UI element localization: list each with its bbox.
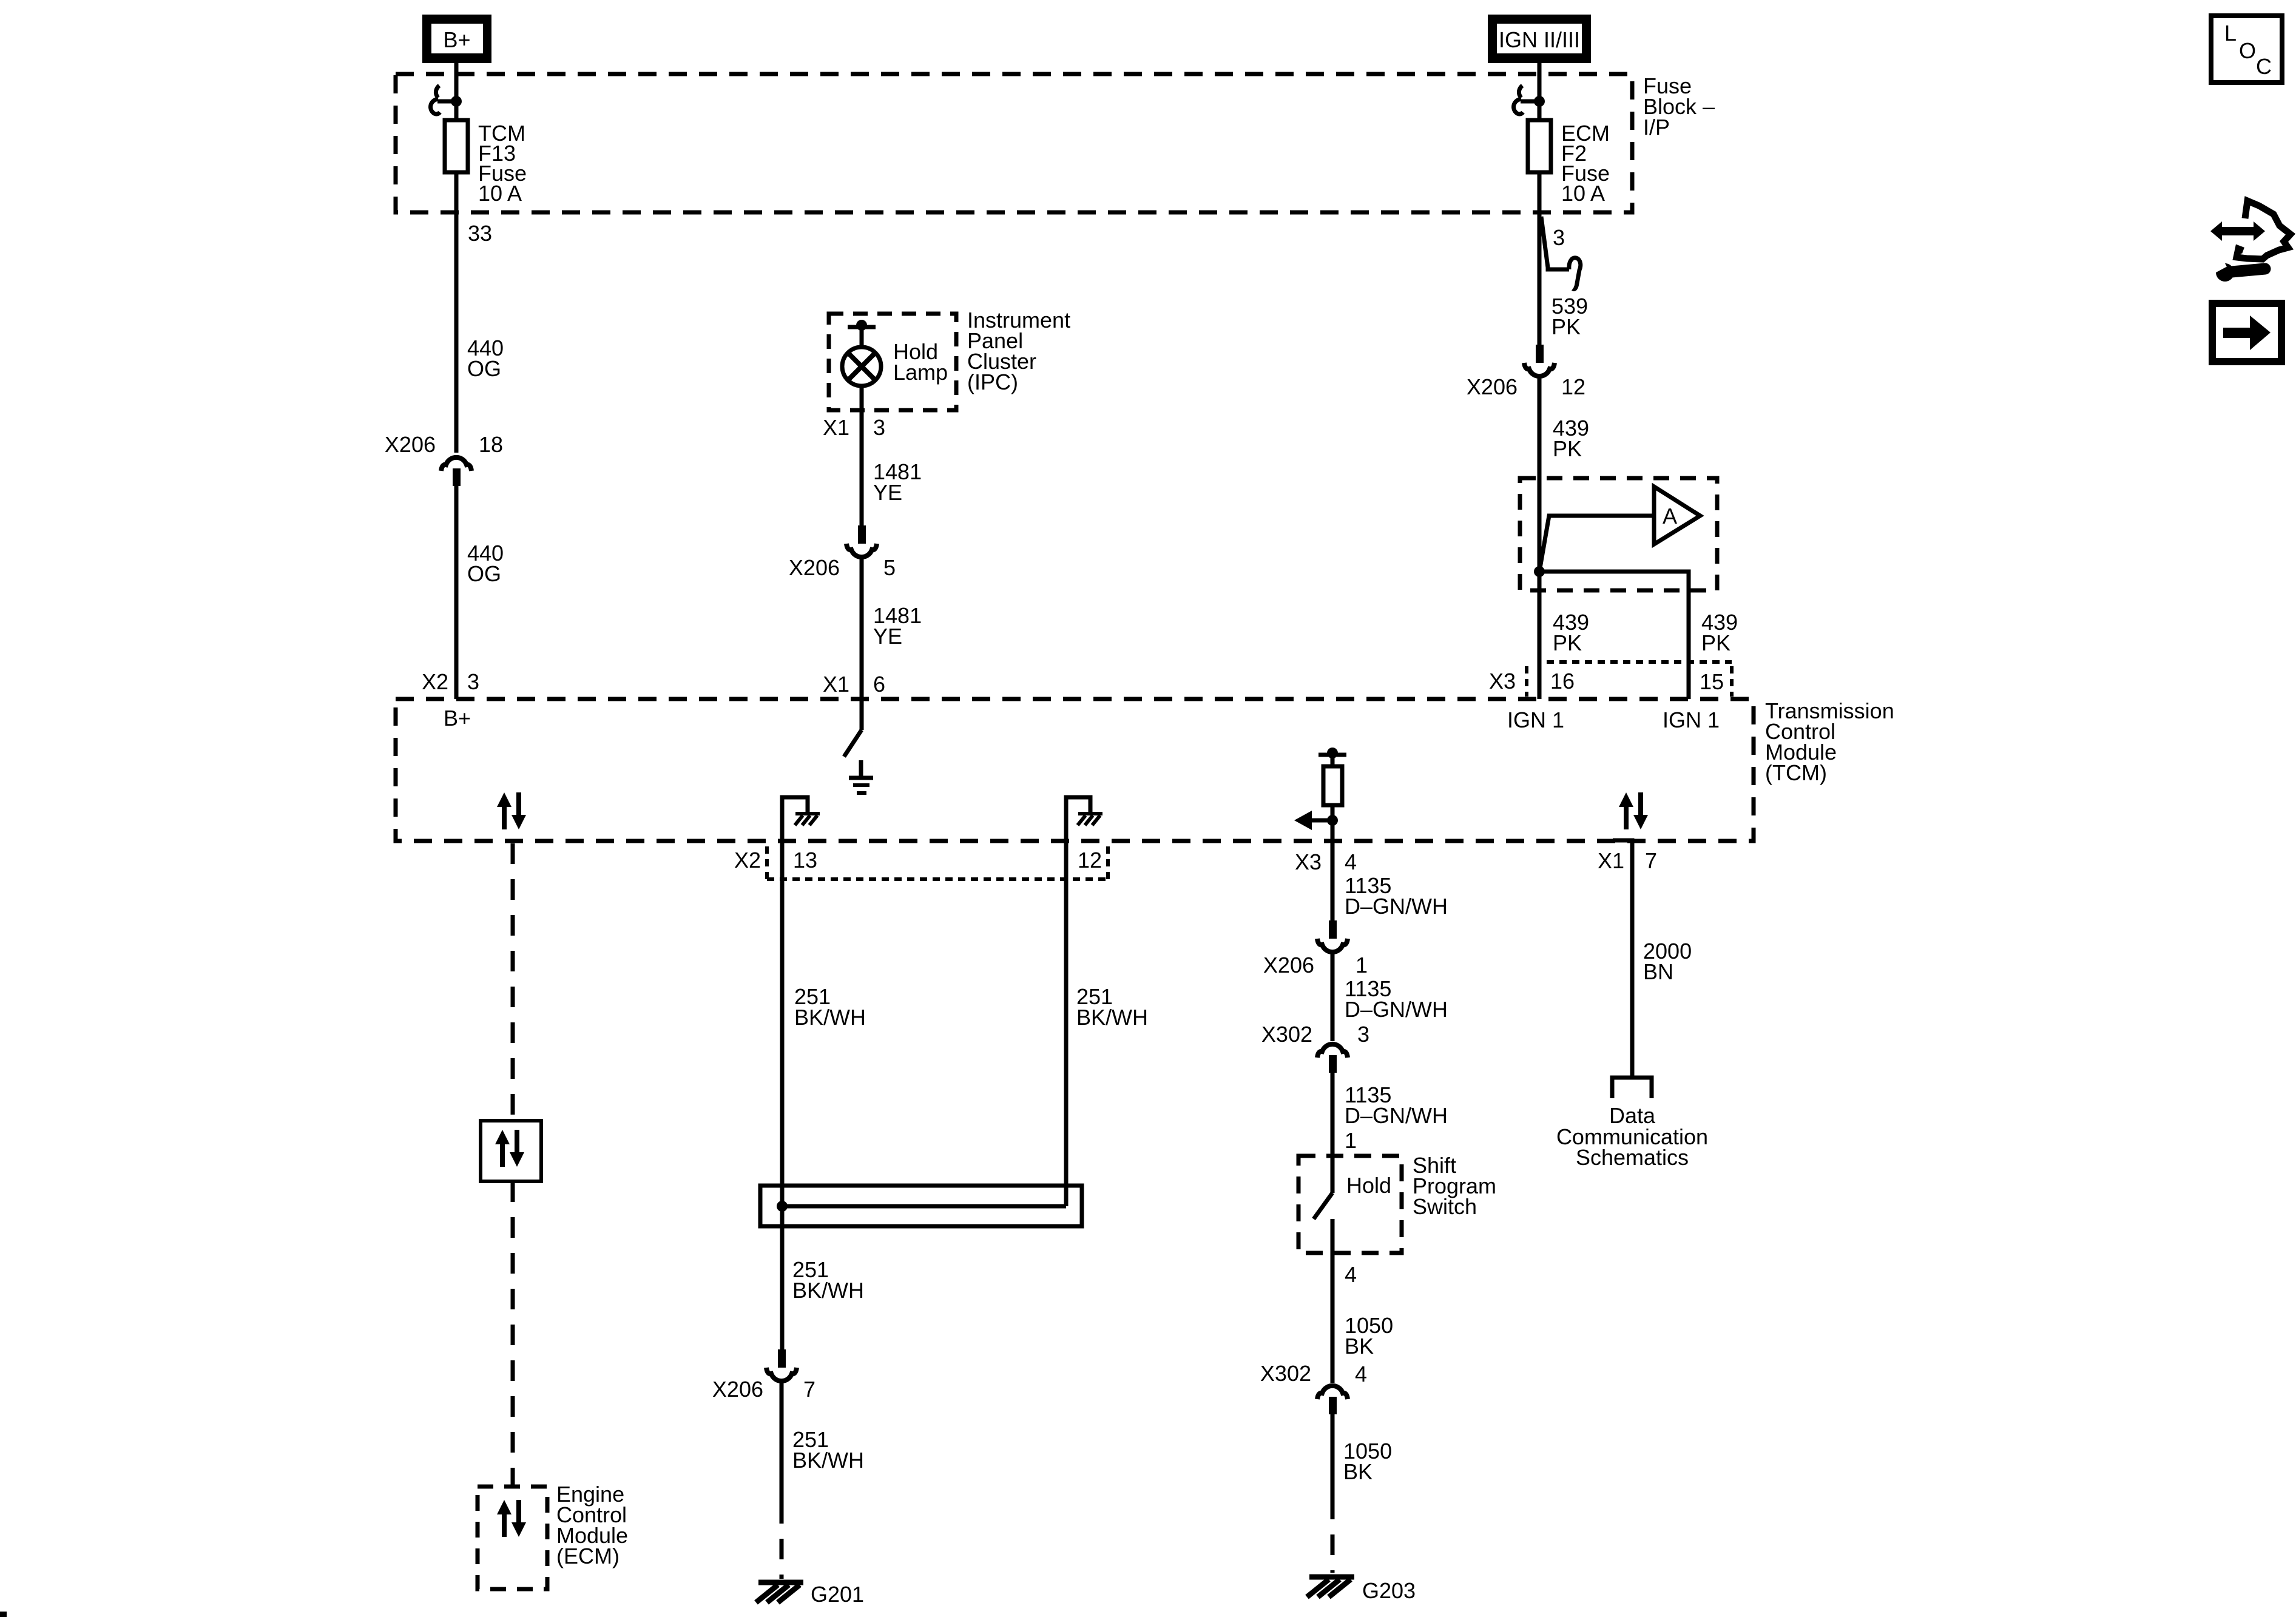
wire label 1135 D-GN/WH lower — [1345, 1082, 1448, 1128]
wire label 251 BK/WH right — [1076, 984, 1148, 1030]
wire label 439 PK left — [1553, 610, 1589, 655]
svg-text:O: O — [2239, 38, 2256, 63]
svg-text:BN: BN — [1643, 959, 1673, 984]
svg-text:X206: X206 — [789, 555, 840, 580]
wire label 1481 YE upper — [873, 459, 922, 505]
earth ground inside TCM — [849, 760, 873, 793]
connector X302 pin 4 — [1260, 1361, 1367, 1414]
wire splice down to X3-16 — [1538, 572, 1542, 699]
IPC dashed box — [829, 314, 956, 410]
svg-text:X2: X2 — [734, 848, 761, 873]
svg-text:D–GN/WH: D–GN/WH — [1345, 894, 1448, 919]
lamp Hold Lamp — [842, 339, 948, 386]
svg-text:IGN II/III: IGN II/III — [1499, 27, 1580, 52]
svg-text:PK: PK — [1551, 314, 1581, 339]
wire connector X302-4 down — [1331, 1414, 1335, 1499]
wire X2-12 to splice box — [1064, 841, 1069, 1206]
wire label 251 BK/WH mid — [792, 1257, 864, 1303]
switch inside TCM (hold lamp driver) — [844, 730, 862, 757]
wire lamp to connector X206-5 — [860, 386, 864, 525]
svg-text:A: A — [1663, 504, 1677, 528]
wire label 251 BK/WH lower — [792, 1427, 864, 1473]
wire connector X206-18 to TCM X2-3 — [454, 486, 459, 699]
svg-text:(ECM): (ECM) — [556, 1544, 620, 1568]
svg-text:L: L — [2224, 21, 2237, 46]
fuse block I/P dashed box — [396, 74, 1632, 212]
ground G201 — [756, 1582, 864, 1607]
lamp supply T node — [848, 320, 876, 348]
svg-text:X2: X2 — [422, 669, 448, 694]
svg-text:(TCM): (TCM) — [1765, 760, 1827, 785]
connector X2 dotted box — [767, 846, 1108, 879]
wire fuse F2 out — [1538, 172, 1542, 214]
ECM dashed box — [478, 1487, 547, 1589]
svg-text:X206: X206 — [712, 1377, 763, 1402]
wire label 1050 BK lower — [1343, 1439, 1392, 1484]
svg-text:12: 12 — [1078, 848, 1102, 873]
svg-text:7: 7 — [1645, 848, 1657, 873]
dashed wire to G203 — [1331, 1499, 1335, 1573]
wire IGN II/III to fuse F2 — [1538, 63, 1542, 120]
loc reference box — [2211, 16, 2282, 83]
svg-text:D–GN/WH: D–GN/WH — [1345, 1103, 1448, 1128]
TCM label — [1765, 698, 1894, 785]
wire label 1050 BK upper — [1345, 1313, 1393, 1359]
junction dot signal node — [1327, 815, 1338, 826]
wire connector X206-1 to X302-3 — [1331, 954, 1335, 1041]
svg-text:YE: YE — [873, 624, 902, 649]
svg-text:X1: X1 — [823, 672, 849, 697]
serial data link box — [481, 1121, 541, 1181]
svg-text:33: 33 — [468, 221, 492, 246]
connector X206 pin 5 — [789, 525, 896, 580]
wire resistor to junction — [1331, 805, 1335, 841]
junction dot at fuse clip — [451, 96, 462, 107]
signal tap arrow — [1294, 811, 1332, 830]
connector X302 pin 3 — [1261, 1022, 1369, 1073]
svg-text:10 A: 10 A — [1561, 181, 1605, 206]
svg-text:15: 15 — [1700, 669, 1724, 694]
svg-text:X206: X206 — [1467, 374, 1518, 399]
svg-text:X302: X302 — [1261, 1022, 1312, 1047]
svg-text:D–GN/WH: D–GN/WH — [1345, 997, 1448, 1022]
wire connector X206-7 down — [780, 1383, 784, 1503]
wire B+ to fuse F13 — [454, 63, 459, 120]
wire splice to X3-15 branch — [1539, 572, 1689, 699]
switch blade Hold — [1314, 1193, 1332, 1219]
fuse block label — [1643, 73, 1715, 140]
IPC label — [967, 308, 1070, 394]
dashed wire to G201 — [780, 1503, 784, 1579]
svg-text:3: 3 — [1357, 1022, 1369, 1047]
svg-text:4: 4 — [1345, 849, 1357, 874]
svg-text:C: C — [2256, 54, 2272, 79]
svg-text:3: 3 — [1553, 225, 1565, 250]
svg-text:16: 16 — [1550, 669, 1575, 694]
svg-text:B+: B+ — [443, 27, 470, 52]
pin label X1 6 — [823, 672, 885, 697]
svg-text:18: 18 — [479, 432, 503, 457]
svg-text:G203: G203 — [1362, 1578, 1416, 1603]
pin label X1 7 — [1598, 848, 1657, 873]
dashed serial wire TCM to link box — [511, 843, 515, 1121]
wire X1-7 from TCM — [1613, 840, 1632, 1078]
wire connector X302-3 to switch — [1331, 1073, 1335, 1193]
pin label X1 3 — [823, 415, 885, 440]
svg-text:3: 3 — [873, 415, 885, 440]
svg-text:X3: X3 — [1295, 849, 1322, 874]
fuse F13 label — [478, 121, 527, 206]
svg-text:1: 1 — [1345, 1128, 1357, 1153]
junction dot at fuse clip right — [1534, 96, 1545, 107]
off-page connector triangle A — [1654, 487, 1700, 544]
svg-text:6: 6 — [873, 672, 885, 697]
svg-text:B+: B+ — [444, 706, 471, 731]
splice junction dot — [1534, 566, 1545, 577]
wire label 539 PK — [1551, 294, 1588, 339]
svg-text:BK/WH: BK/WH — [792, 1278, 864, 1303]
wire label 440 OG lower — [467, 541, 504, 586]
connector X3 dotted box — [1527, 662, 1732, 697]
pin labels X2 13 12 — [734, 848, 1102, 873]
fuse F13 body — [445, 120, 468, 172]
wire connector X206-5 to TCM X1-6 — [860, 559, 864, 730]
power node IGN II/III box — [1488, 15, 1591, 63]
svg-text:PK: PK — [1701, 630, 1730, 655]
pin labels X3 16 15 — [1489, 669, 1724, 694]
power node B+ box — [422, 15, 491, 63]
fuse F2 label — [1561, 121, 1610, 206]
svg-text:X206: X206 — [1263, 953, 1314, 977]
fuse F2 body — [1528, 120, 1551, 172]
connector X206 pin 12 — [1467, 345, 1585, 399]
pull-up node T-bar — [1319, 748, 1346, 766]
svg-text:X3: X3 — [1489, 669, 1516, 694]
svg-text:12: 12 — [1561, 374, 1585, 399]
fuse clip hook left — [431, 86, 456, 114]
svg-text:5: 5 — [883, 555, 896, 580]
connector X206 pin 18 — [385, 432, 503, 486]
svg-text:Schematics: Schematics — [1576, 1145, 1689, 1170]
svg-text:BK/WH: BK/WH — [1076, 1005, 1148, 1030]
wire label 439 PK right — [1701, 610, 1738, 655]
svg-text:Lamp: Lamp — [893, 360, 948, 385]
internal ground lead X2-13 — [782, 797, 820, 841]
svg-text:OG: OG — [467, 356, 501, 381]
svg-text:13: 13 — [793, 848, 817, 873]
svg-text:G201: G201 — [811, 1582, 864, 1607]
splice dashed box — [1520, 478, 1717, 590]
connector X206 pin 7 — [712, 1349, 815, 1402]
fuse block output terminal branch — [1541, 217, 1581, 289]
svg-text:7: 7 — [803, 1377, 815, 1402]
svg-text:BK: BK — [1345, 1334, 1374, 1359]
tools hand-wrench icon — [2210, 201, 2291, 282]
wire switch to connector X302-4 — [1331, 1219, 1335, 1383]
svg-text:4: 4 — [1355, 1362, 1367, 1386]
svg-text:X1: X1 — [1598, 848, 1624, 873]
ECM label — [556, 1482, 628, 1568]
ground G203 — [1307, 1577, 1416, 1603]
svg-text:IGN 1: IGN 1 — [1663, 707, 1720, 732]
page artifact dot — [0, 1612, 7, 1617]
svg-text:X302: X302 — [1260, 1361, 1311, 1386]
wire X2-13 to splice box — [780, 841, 785, 1226]
shift program switch dashed box — [1298, 1156, 1402, 1253]
wire label 2000 BN — [1643, 939, 1692, 984]
wire label 1481 YE lower — [873, 603, 922, 649]
svg-text:1: 1 — [1356, 953, 1368, 977]
wire splice box to connector X206-7 — [780, 1226, 785, 1349]
wire label 1135 D-GN/WH mid — [1345, 976, 1448, 1022]
svg-text:Hold: Hold — [1346, 1173, 1391, 1198]
wire connector X206-12 to splice A — [1538, 379, 1542, 572]
shift program switch label — [1413, 1153, 1496, 1219]
dashed serial wire link box to ECM — [511, 1181, 515, 1487]
wire splice to off-page triangle A — [1539, 516, 1654, 572]
wire label 440 OG upper — [467, 336, 504, 381]
connector X206 pin 1 — [1263, 920, 1368, 977]
wire fuse F13 to connector X206-18 — [454, 172, 459, 453]
svg-text:IGN 1: IGN 1 — [1507, 707, 1564, 732]
pin label X3 4 — [1295, 849, 1357, 874]
wire label 251 BK/WH left — [794, 984, 866, 1030]
TCM data arrows right — [1619, 792, 1648, 829]
wire fuse to connector X206-12 — [1538, 214, 1542, 345]
svg-text:10 A: 10 A — [478, 181, 522, 206]
wire label 439 PK upper — [1553, 416, 1589, 461]
svg-text:Switch: Switch — [1413, 1194, 1477, 1219]
svg-text:3: 3 — [467, 669, 479, 694]
svg-text:X1: X1 — [823, 415, 849, 440]
internal ground lead X2-12 — [1066, 797, 1102, 841]
svg-text:I/P: I/P — [1643, 115, 1670, 140]
svg-text:PK: PK — [1553, 630, 1582, 655]
fuse clip hook right — [1514, 86, 1539, 114]
svg-text:BK/WH: BK/WH — [792, 1448, 864, 1473]
off-page terminal bracket — [1612, 1078, 1652, 1098]
pin label X2 3 — [422, 669, 479, 694]
svg-text:X206: X206 — [385, 432, 436, 457]
TCM dashed box — [396, 699, 1754, 841]
svg-text:(IPC): (IPC) — [967, 370, 1018, 394]
wire X3-4 to connector X206-1 — [1331, 841, 1335, 920]
splice box S-bus — [760, 1186, 1082, 1226]
forward arrow box — [2212, 303, 2281, 362]
data communication label — [1556, 1103, 1708, 1170]
ECM data arrows — [497, 1500, 526, 1537]
TCM data arrows left — [497, 792, 526, 829]
wire label 1135 D-GN/WH upper — [1345, 873, 1448, 919]
svg-text:OG: OG — [467, 561, 501, 586]
resistor inside TCM — [1323, 766, 1342, 805]
svg-text:PK: PK — [1553, 436, 1582, 461]
svg-text:YE: YE — [873, 480, 902, 505]
svg-text:BK/WH: BK/WH — [794, 1005, 866, 1030]
svg-text:4: 4 — [1345, 1262, 1357, 1287]
svg-text:BK: BK — [1343, 1459, 1373, 1484]
